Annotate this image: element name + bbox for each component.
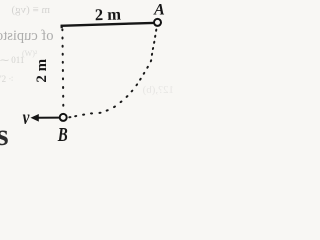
node B: open circle xyxy=(60,114,67,121)
wire: horizontal line from corner to A xyxy=(61,23,154,26)
svg-text:12?,(b): 12?,(b) xyxy=(142,84,174,96)
svg-text:m ≡ (vg): m ≡ (vg) xyxy=(11,4,50,16)
node A: open circle xyxy=(154,19,161,26)
svg-text:A: A xyxy=(153,2,165,19)
wire: velocity arrow shaft xyxy=(37,117,60,119)
arrowhead xyxy=(31,114,39,122)
wire: vertical dotted line from corner to B xyxy=(61,28,64,106)
svg-text:2 m: 2 m xyxy=(95,5,122,25)
svg-text:2 m: 2 m xyxy=(34,58,50,82)
faint bleed-through text top-left xyxy=(11,4,50,16)
svg-text:s: s xyxy=(0,117,9,147)
svg-text:B: B xyxy=(57,123,68,146)
wire: corner stub xyxy=(60,25,62,28)
wire: dotted arc from A to B xyxy=(68,29,157,119)
faint bleed-through text right side xyxy=(142,84,174,96)
svg-text:of cupisto: of cupisto xyxy=(0,28,54,44)
svg-text:'2 ⁖: '2 ⁖ xyxy=(0,74,14,84)
svg-text:v: v xyxy=(23,106,31,129)
svg-text:⁓ 011: ⁓ 011 xyxy=(0,55,24,65)
faint bleed-through text "of cupi" mirrored xyxy=(0,28,54,44)
